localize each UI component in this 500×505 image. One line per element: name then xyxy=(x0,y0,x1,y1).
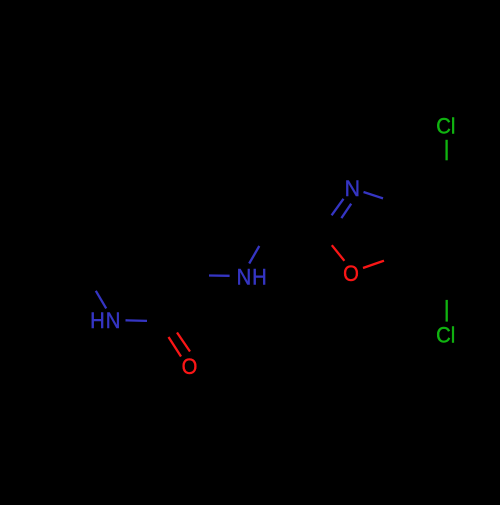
svg-text:O: O xyxy=(343,261,359,286)
node Cl2 label (bottom chlorine) xyxy=(436,323,455,348)
node NH label (secondary amine) xyxy=(237,264,268,289)
svg-text:NH: NH xyxy=(237,264,268,289)
wire: bond NH-CH2 (blue half) xyxy=(249,246,259,264)
wire: bond Cl2-C7 (green half) xyxy=(446,300,448,322)
wire: bond N3-C3a (blue half) xyxy=(364,192,384,198)
svg-text:N: N xyxy=(345,175,360,201)
node N3 label (oxazole nitrogen) xyxy=(345,175,360,201)
wire: bond Cl1-C4 (green half) xyxy=(445,140,447,161)
wire: bond HN-C2' carbonyl (blue half) xyxy=(126,319,148,322)
wire: double bond C2'=O line a (red half) xyxy=(169,337,182,357)
wire: double bond N3=C2 line a (blue half) xyxy=(332,199,344,216)
node O1 label (oxazole oxygen) xyxy=(343,261,359,286)
svg-text:Cl: Cl xyxy=(436,114,455,139)
wire: bond O1-C2 (red half) xyxy=(332,245,345,261)
wire: bond O1-C7a (red half) xyxy=(363,261,384,268)
svg-text:O: O xyxy=(182,354,198,379)
node HN label (lactam nitrogen) xyxy=(90,308,121,333)
svg-text:Cl: Cl xyxy=(436,323,455,348)
wire: bond NH-C3' (blue half) xyxy=(209,274,230,277)
node O2 label (carbonyl oxygen) xyxy=(182,354,198,379)
svg-text:HN: HN xyxy=(90,308,121,333)
wire: double bond C2'=O line b (red half) xyxy=(177,333,190,352)
node Cl1 label (top chlorine) xyxy=(436,114,455,139)
wire: double bond N3=C2 line b (blue half) xyxy=(341,204,351,218)
wire: bond HN-C6' (blue half) xyxy=(96,291,106,309)
